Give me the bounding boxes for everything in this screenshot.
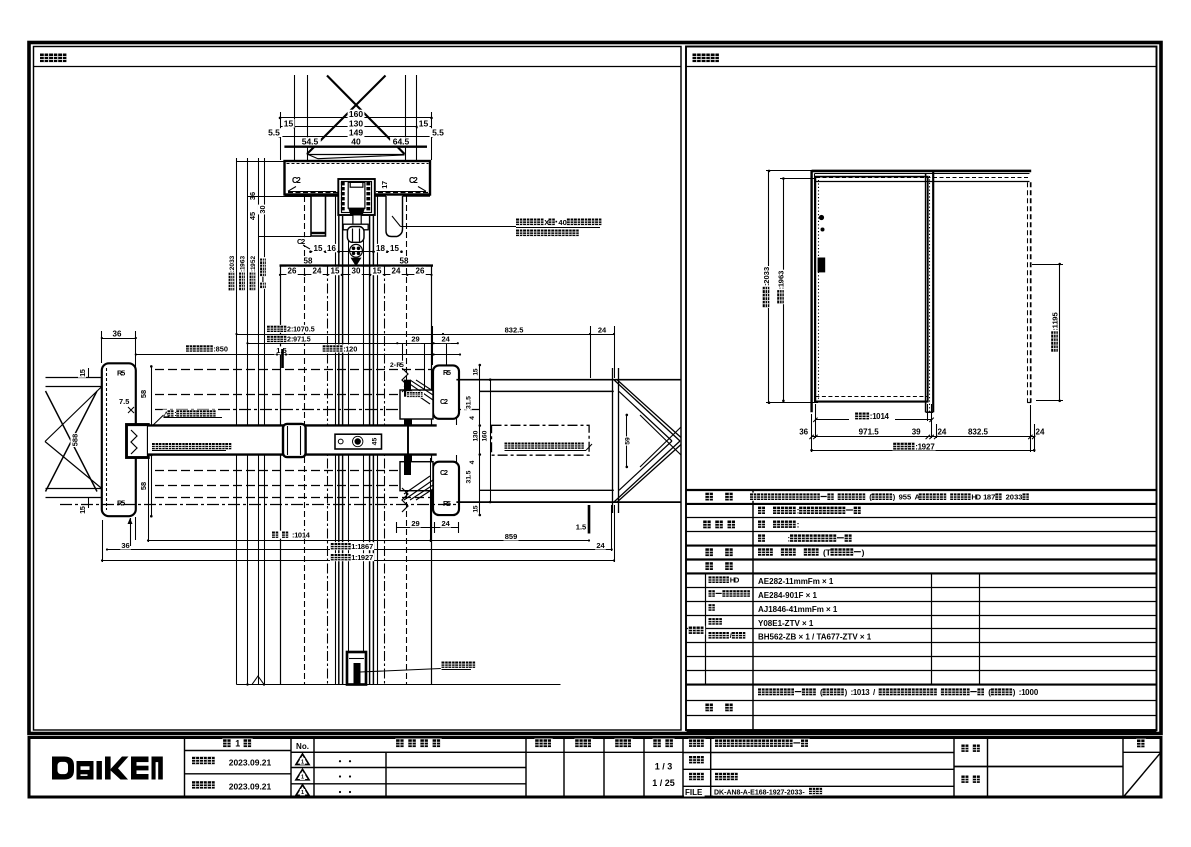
svg-text:15: 15 xyxy=(390,244,399,253)
svg-text:5: 5 xyxy=(466,470,473,474)
svg-text:AE282-11mmFm × 1: AE282-11mmFm × 1 xyxy=(758,577,834,586)
svg-text:7: 7 xyxy=(930,442,935,451)
svg-text:3: 3 xyxy=(240,256,247,260)
svg-text:Y08E1-ZTV × 1: Y08E1-ZTV × 1 xyxy=(758,619,814,628)
svg-text:54.5: 54.5 xyxy=(302,137,319,147)
svg-text:36: 36 xyxy=(121,541,129,550)
svg-text:15: 15 xyxy=(331,267,340,276)
svg-text:40: 40 xyxy=(351,137,361,147)
svg-text:24: 24 xyxy=(937,427,946,436)
svg-text:8: 8 xyxy=(70,434,79,438)
svg-text:26: 26 xyxy=(416,267,425,276)
svg-text:24: 24 xyxy=(442,519,451,528)
svg-text:2: 2 xyxy=(444,469,448,477)
svg-text:18: 18 xyxy=(376,244,385,253)
svg-text:7: 7 xyxy=(369,542,373,551)
svg-text:0: 0 xyxy=(1034,688,1039,697)
svg-text:0: 0 xyxy=(224,344,228,353)
svg-text:15: 15 xyxy=(314,244,323,253)
svg-text:5.5: 5.5 xyxy=(268,128,280,138)
svg-text:58: 58 xyxy=(304,257,313,266)
svg-text:15: 15 xyxy=(373,267,382,276)
svg-text:5: 5 xyxy=(447,369,451,377)
svg-text:2: 2 xyxy=(296,176,301,185)
svg-text:64.5: 64.5 xyxy=(393,137,410,147)
svg-text:5.5: 5.5 xyxy=(432,128,444,138)
svg-text:): ) xyxy=(1013,688,1016,697)
svg-text:36: 36 xyxy=(113,330,122,339)
svg-text:5: 5 xyxy=(121,499,125,508)
svg-text:D: D xyxy=(976,493,982,502)
svg-text:D: D xyxy=(734,576,740,585)
svg-text:3: 3 xyxy=(865,688,870,697)
svg-text::: : xyxy=(797,520,800,530)
svg-text:859: 859 xyxy=(505,532,518,541)
svg-text:24: 24 xyxy=(1036,427,1045,436)
svg-text:2: 2 xyxy=(444,398,448,406)
svg-text:7: 7 xyxy=(369,553,373,562)
svg-text:DK-AN8-A-E168-1927-2033-: DK-AN8-A-E168-1927-2033- xyxy=(714,789,805,796)
svg-text:4: 4 xyxy=(469,460,476,464)
svg-text:0: 0 xyxy=(563,218,567,227)
svg-text:5: 5 xyxy=(248,212,257,216)
svg-text:5: 5 xyxy=(125,397,129,406)
svg-text:1.5: 1.5 xyxy=(576,523,586,532)
svg-text:1: 1 xyxy=(301,775,304,781)
svg-text:6: 6 xyxy=(248,192,257,196)
svg-text:971.5: 971.5 xyxy=(859,427,880,436)
svg-text:2023.09.21: 2023.09.21 xyxy=(229,757,272,767)
svg-text:24: 24 xyxy=(442,335,451,344)
svg-text:29: 29 xyxy=(411,335,419,344)
svg-text:5: 5 xyxy=(311,326,315,334)
svg-text:5: 5 xyxy=(400,362,404,369)
svg-text:3: 3 xyxy=(777,271,786,275)
svg-text:5: 5 xyxy=(78,506,87,510)
svg-text:1: 1 xyxy=(301,759,304,765)
svg-text:5: 5 xyxy=(307,336,311,344)
svg-text:3: 3 xyxy=(229,255,236,259)
svg-text:0: 0 xyxy=(258,205,267,209)
svg-text:4: 4 xyxy=(885,412,890,421)
svg-text:1: 1 xyxy=(301,790,304,796)
svg-text:5: 5 xyxy=(78,369,87,373)
svg-text::: : xyxy=(787,533,790,543)
svg-text:7: 7 xyxy=(991,493,995,502)
svg-text::: : xyxy=(797,506,800,516)
svg-text:1: 1 xyxy=(235,739,240,749)
svg-text:832.5: 832.5 xyxy=(505,325,524,334)
svg-text:2: 2 xyxy=(250,256,257,260)
svg-text:1 / 3: 1 / 3 xyxy=(655,762,673,772)
svg-text:24: 24 xyxy=(313,267,322,276)
svg-text:0: 0 xyxy=(353,344,357,353)
svg-text:58: 58 xyxy=(400,257,409,266)
svg-text:29: 29 xyxy=(411,519,419,528)
svg-text:36: 36 xyxy=(799,427,808,436)
svg-text:BH562-ZB × 1 / TA677-ZTV × 1: BH562-ZB × 1 / TA677-ZTV × 1 xyxy=(758,633,872,642)
svg-text:1 / 25: 1 / 25 xyxy=(652,778,675,788)
svg-text:4: 4 xyxy=(469,416,476,420)
svg-text:30: 30 xyxy=(352,267,361,276)
svg-text:8: 8 xyxy=(139,390,148,394)
svg-text:5: 5 xyxy=(121,369,125,378)
svg-text:5: 5 xyxy=(466,396,473,400)
svg-text:3: 3 xyxy=(1018,493,1022,502)
svg-text:39: 39 xyxy=(912,427,921,436)
svg-text:2: 2 xyxy=(413,176,418,185)
svg-text:9: 9 xyxy=(625,437,632,441)
svg-text:24: 24 xyxy=(596,541,605,550)
svg-text:15: 15 xyxy=(419,118,429,128)
svg-text:FILE: FILE xyxy=(685,788,703,797)
svg-text:26: 26 xyxy=(288,267,297,276)
svg-text:): ) xyxy=(862,547,865,557)
svg-text:5: 5 xyxy=(472,368,479,372)
svg-text:16: 16 xyxy=(327,244,336,253)
svg-text:): ) xyxy=(845,688,848,697)
svg-text:7: 7 xyxy=(380,181,389,185)
svg-text:AJ1846-41mmFm × 1: AJ1846-41mmFm × 1 xyxy=(758,605,838,614)
svg-text:2023.09.21: 2023.09.21 xyxy=(229,782,272,792)
svg-text:24: 24 xyxy=(598,325,607,334)
svg-text:(: ( xyxy=(988,688,991,697)
svg-text:5: 5 xyxy=(372,438,379,442)
svg-text:5: 5 xyxy=(472,505,479,509)
svg-text:832.5: 832.5 xyxy=(968,427,989,436)
svg-text:No.: No. xyxy=(296,742,309,751)
svg-text:15: 15 xyxy=(284,118,294,128)
svg-text:AE284-901F × 1: AE284-901F × 1 xyxy=(758,591,817,600)
svg-text:0: 0 xyxy=(473,430,480,434)
svg-text:3: 3 xyxy=(762,267,771,271)
svg-text:24: 24 xyxy=(392,267,401,276)
svg-text:8: 8 xyxy=(139,482,148,486)
svg-text:0: 0 xyxy=(482,430,489,434)
